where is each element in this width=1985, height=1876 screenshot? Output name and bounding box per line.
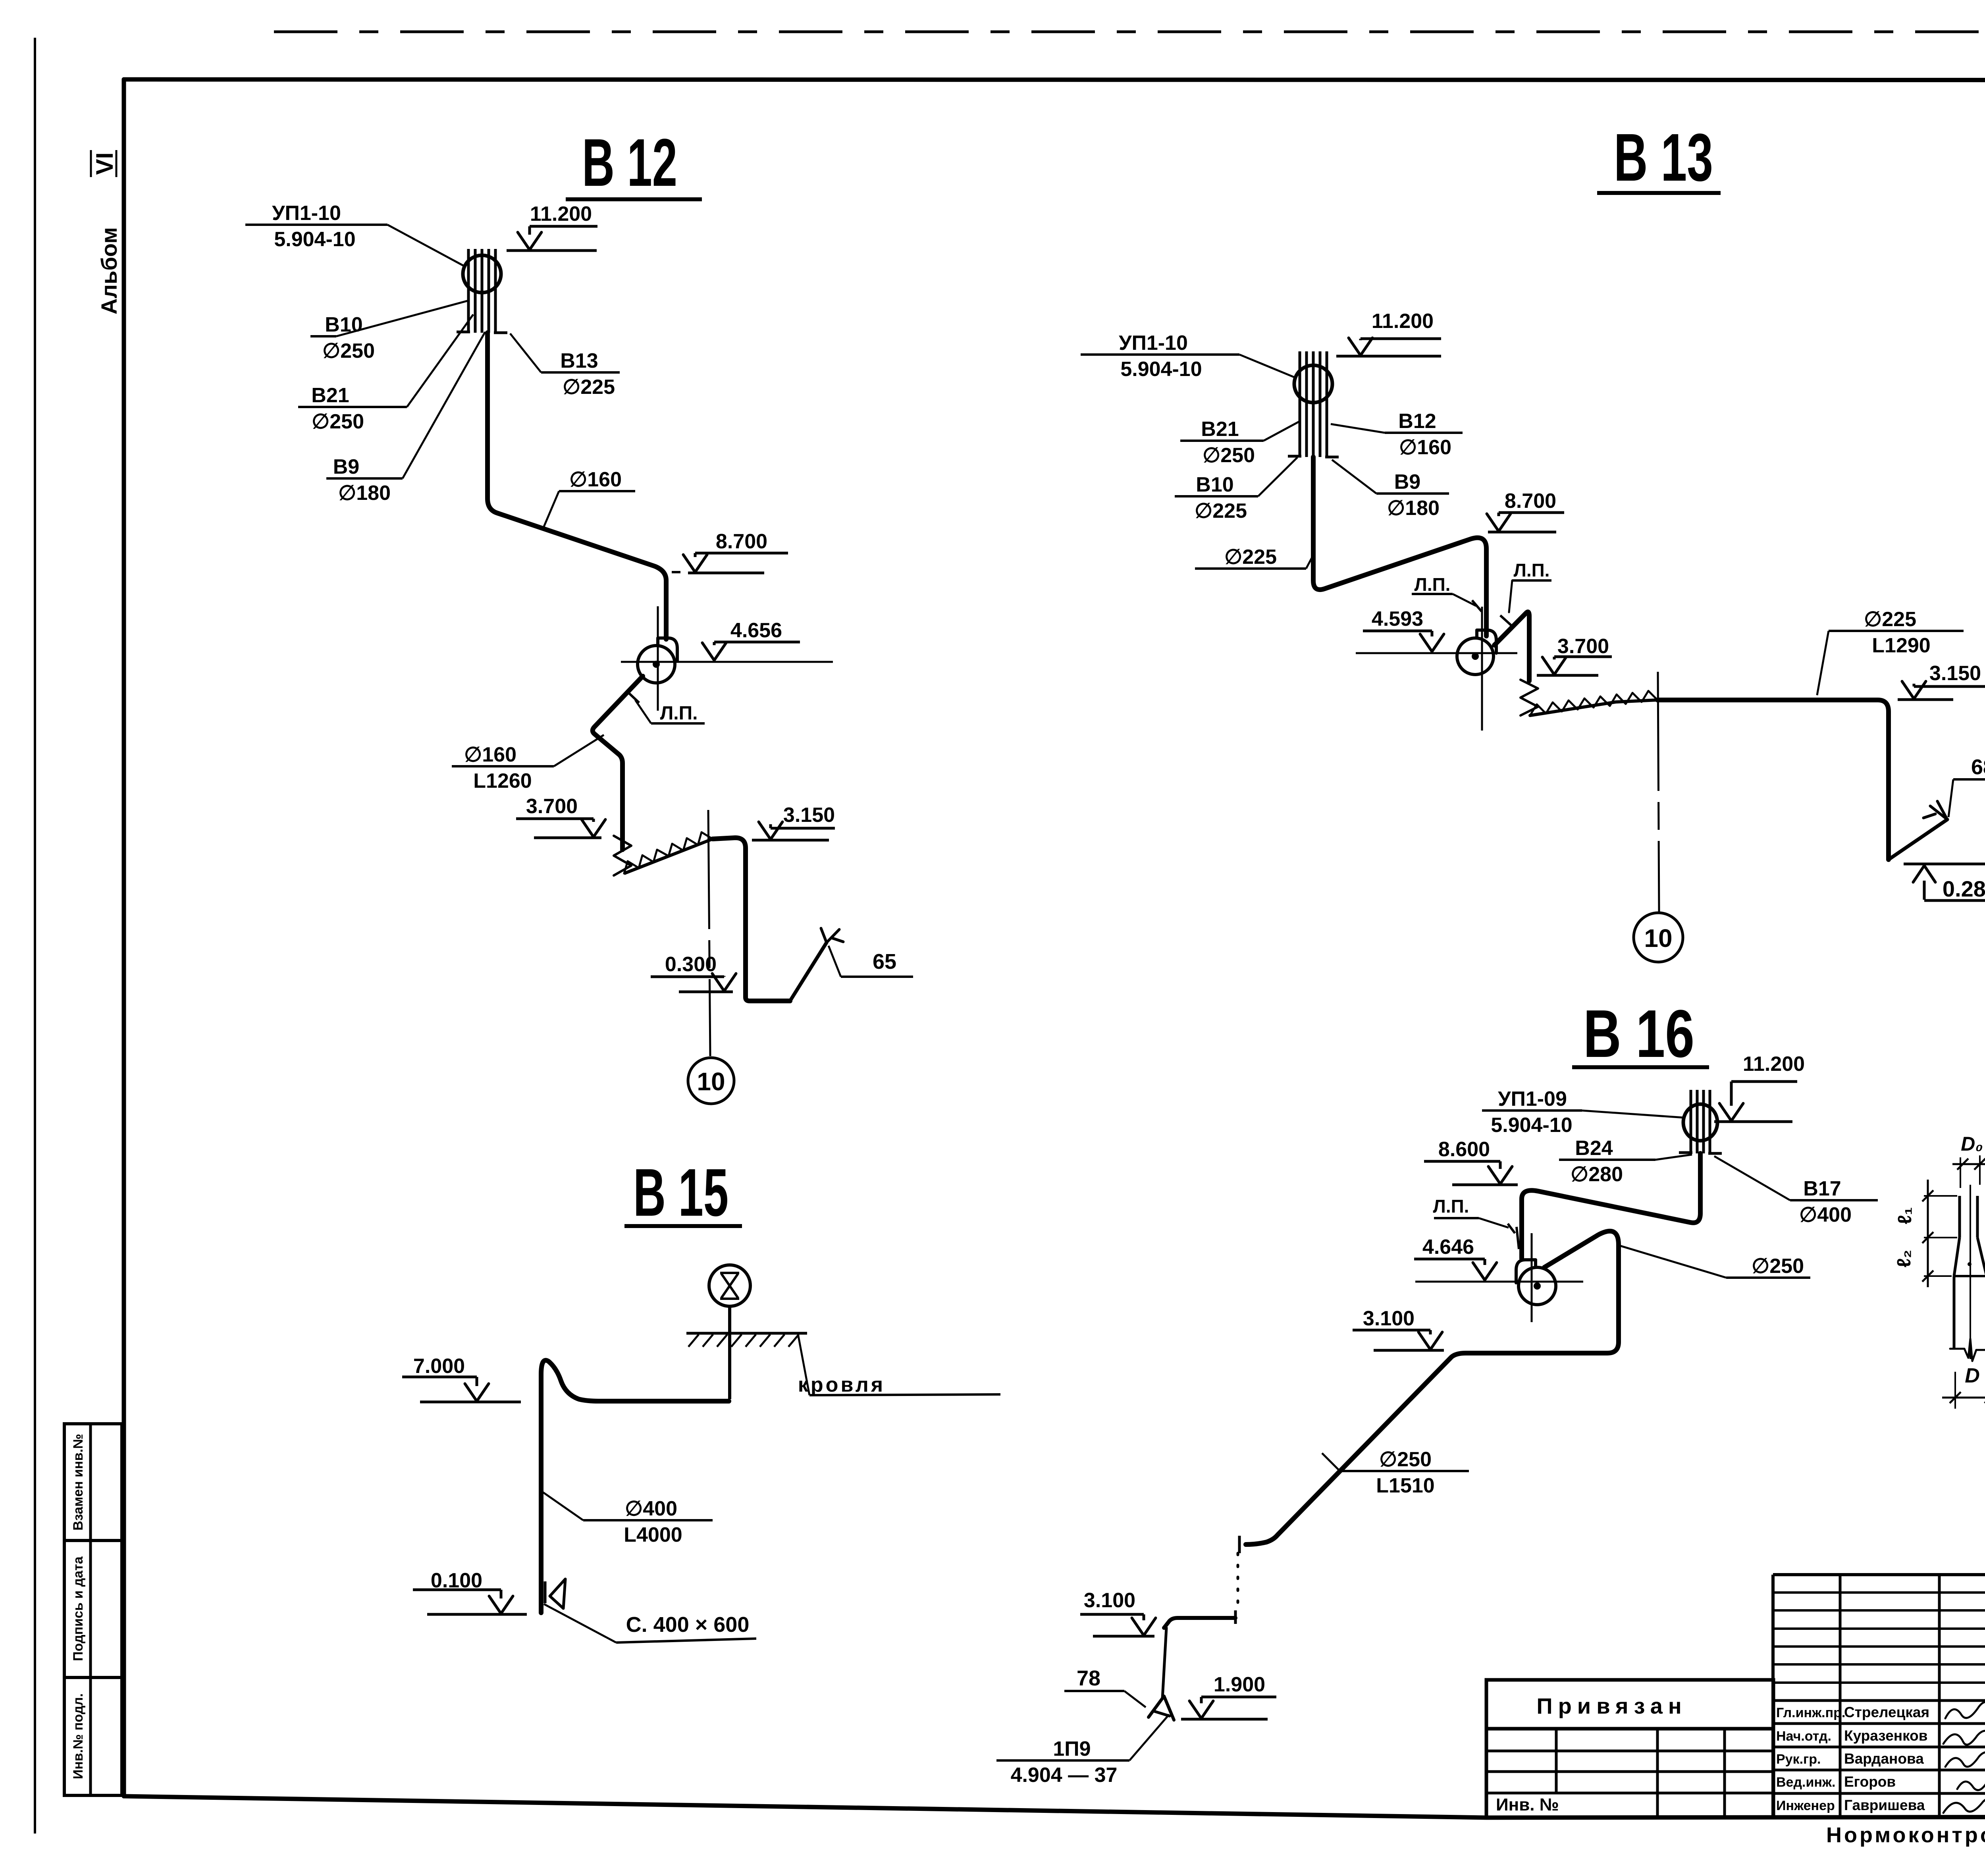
main duct B13 horizontal to outlet — [1657, 700, 1889, 860]
elevation mark 8.700 B12 — [683, 530, 788, 573]
svg-text:∅160: ∅160 — [569, 468, 622, 491]
svg-text:7.000: 7.000 — [413, 1355, 465, 1378]
label В12 ф160 (B13) — [1331, 410, 1463, 459]
axis line to node 10 (B12) — [708, 810, 710, 1056]
svg-text:кровля: кровля — [798, 1373, 885, 1396]
label ф225 (B13) — [1195, 546, 1313, 569]
elevation mark 3.700 B12 — [516, 795, 605, 838]
flare nozzle detail drawing — [1950, 1185, 1985, 1361]
svg-text:11.200: 11.200 — [1372, 310, 1434, 333]
elevation mark 8.600 B16 — [1424, 1138, 1518, 1185]
svg-text:В9: В9 — [1394, 470, 1420, 494]
svg-text:Гавришева: Гавришева — [1844, 1797, 1925, 1813]
dimension l1 l2 — [1894, 1180, 1957, 1287]
label 1П9 4.904-37 — [996, 1714, 1169, 1787]
svg-text:4.646: 4.646 — [1422, 1236, 1474, 1259]
svg-text:В21: В21 — [311, 384, 349, 407]
svg-text:L1260: L1260 — [473, 769, 532, 792]
label В21 ф250 — [298, 314, 473, 433]
flared discharge outlet B13 — [1889, 819, 1947, 860]
duct B12 from roof fan down and to fan inlet — [488, 333, 666, 639]
svg-text:∅160: ∅160 — [464, 743, 516, 766]
elevation mark 0.300 B12 — [651, 953, 736, 992]
svg-text:∅225: ∅225 — [1864, 608, 1916, 631]
svg-text:3.150: 3.150 — [783, 804, 835, 827]
svg-text:3.100: 3.100 — [1084, 1589, 1135, 1612]
flared discharge outlet B12 — [790, 943, 827, 1001]
sheet top cut dash-dot line — [274, 31, 1985, 33]
svg-text:В21: В21 — [1201, 418, 1239, 441]
svg-text:В24: В24 — [1575, 1137, 1613, 1160]
label ф225 L1290 — [1817, 608, 1964, 695]
svg-text:Варданова: Варданова — [1844, 1751, 1924, 1767]
svg-text:5.904-10: 5.904-10 — [274, 228, 355, 251]
elevation mark 7.000 B15 — [402, 1355, 521, 1402]
svg-text:В 12: В 12 — [582, 125, 677, 201]
duct B16 fan outlet: up over, down, left, long diagonal down-left — [1246, 1231, 1619, 1544]
svg-text:Подпись и дата: Подпись и дата — [71, 1556, 86, 1661]
duct B12 to outlet — [713, 838, 790, 1001]
label В9 ф180 — [326, 332, 485, 505]
svg-text:3.700: 3.700 — [1557, 635, 1609, 658]
stem from lamp to duct — [728, 1306, 731, 1399]
svg-text:L4000: L4000 — [624, 1523, 682, 1546]
svg-text:∅250: ∅250 — [1379, 1448, 1432, 1471]
svg-text:В13: В13 — [560, 349, 598, 372]
elevation mark 1.900 B16 — [1181, 1673, 1276, 1719]
svg-text:∅225: ∅225 — [1195, 499, 1247, 523]
label В21 ф250 (B13) — [1180, 418, 1299, 467]
svg-text:0.285: 0.285 — [1943, 876, 1985, 901]
elevation mark 3.100 B16 lower — [1080, 1589, 1156, 1636]
svg-text:Инв. №: Инв. № — [1496, 1795, 1559, 1814]
svg-text:Привязан: Привязан — [1536, 1693, 1687, 1718]
flexible duct B13 with teeth — [1530, 700, 1657, 715]
svg-text:4.593: 4.593 — [1372, 607, 1423, 630]
svg-text:4.904 — 37: 4.904 — 37 — [1011, 1764, 1118, 1787]
elevation mark 0.100 B15 — [413, 1569, 527, 1614]
duct B13 fan outlet up-right then down — [1494, 612, 1529, 681]
label УП1-10 5.904-10 — [245, 202, 464, 266]
svg-text:Инв.№ подл.: Инв.№ подл. — [71, 1693, 86, 1779]
fan B16 (centrifugal, side view) — [1516, 1260, 1556, 1305]
label ф160 L1260 — [452, 735, 604, 792]
roof fan unit УП1-09 of B16 — [1679, 1090, 1722, 1153]
svg-text:В 13: В 13 — [1614, 120, 1713, 195]
svg-text:В 16: В 16 — [1583, 996, 1694, 1072]
svg-text:Нормоконтролер: Нормоконтролер — [1826, 1823, 1985, 1847]
fan B16 centerlines — [1415, 1281, 1583, 1283]
elevation mark 4.646 B16 — [1414, 1236, 1497, 1281]
svg-text:5.904-10: 5.904-10 — [1491, 1114, 1572, 1137]
svg-text:Альбом: Альбом — [96, 227, 121, 314]
svg-text:Л.П.: Л.П. — [1514, 560, 1550, 580]
svg-text:В17: В17 — [1803, 1177, 1841, 1200]
fan B13 (centrifugal, side view) — [1457, 630, 1496, 675]
duct B13 from roof fan down, rising right, down to fan — [1313, 457, 1486, 636]
roof fan unit УП1-10 of B13 — [1288, 351, 1339, 457]
svg-text:L1290: L1290 — [1872, 634, 1930, 657]
flexible duct B12 with teeth — [624, 839, 713, 873]
deflector lamp symbol B15 — [709, 1265, 750, 1306]
stamp box Привязан — [1486, 1680, 1773, 1818]
label В9 ф180 (B13) — [1332, 460, 1449, 520]
svg-text:Егоров: Егоров — [1844, 1774, 1896, 1790]
svg-text:68: 68 — [1971, 755, 1985, 779]
svg-text:78: 78 — [1077, 1666, 1100, 1690]
elevation mark 3.150 B13 — [1898, 662, 1985, 700]
roof hatch line — [686, 1332, 807, 1335]
sheet left edge line — [34, 38, 36, 1834]
svg-text:ℓ₂: ℓ₂ — [1894, 1250, 1915, 1268]
svg-text:VI: VI — [91, 152, 118, 175]
svg-text:В 15: В 15 — [633, 1155, 728, 1230]
sidebar stamp: Подпись и дата — [64, 1541, 122, 1677]
sidebar stamp: Инв.N подл. — [64, 1677, 122, 1795]
sidebar stamp: Взамен инв.N — [64, 1424, 122, 1541]
svg-text:∅225: ∅225 — [563, 376, 615, 399]
svg-text:8.700: 8.700 — [1505, 490, 1556, 513]
svg-text:∅250: ∅250 — [1752, 1255, 1804, 1278]
svg-text:65: 65 — [873, 950, 896, 974]
fan B12 centerlines — [621, 661, 833, 663]
lower duct B16 — [1234, 1610, 1237, 1624]
svg-text:Стрелецкая: Стрелецкая — [1844, 1704, 1929, 1720]
label ф250 (B16 outlet) — [1621, 1246, 1810, 1278]
svg-text:∅160: ∅160 — [1399, 436, 1451, 459]
svg-text:∅400: ∅400 — [625, 1497, 677, 1520]
svg-text:В9: В9 — [333, 455, 359, 478]
svg-text:3.700: 3.700 — [526, 795, 578, 818]
hatch mark Л.П. on B12 outlet duct — [626, 691, 639, 703]
svg-text:В10: В10 — [325, 313, 362, 336]
label УП1-10 5.904-10 (B13) — [1081, 332, 1294, 381]
svg-text:8.600: 8.600 — [1438, 1138, 1490, 1161]
label ф250 L1510 — [1322, 1448, 1469, 1497]
svg-text:Л.П.: Л.П. — [1415, 574, 1451, 595]
duct B15 riser with hook and horizontal run — [541, 1360, 729, 1613]
svg-text:УП1-10: УП1-10 — [272, 202, 341, 225]
svg-text:УП1-10: УП1-10 — [1119, 332, 1188, 355]
svg-text:D: D — [1965, 1364, 1980, 1387]
duct end tick B16 — [1238, 1536, 1241, 1553]
axis node circle 10 (B12) — [688, 1058, 734, 1104]
label В17 ф400 — [1714, 1156, 1878, 1226]
svg-text:Гл.инж.пр.: Гл.инж.пр. — [1776, 1705, 1845, 1720]
dimension Do — [1952, 1133, 1985, 1188]
svg-text:Взамен инв.№: Взамен инв.№ — [71, 1434, 86, 1531]
svg-text:Л.П.: Л.П. — [660, 703, 698, 724]
label В13 ф225 — [510, 334, 620, 399]
svg-text:10: 10 — [1644, 924, 1672, 952]
elevation mark 11.200 B12 — [507, 202, 597, 251]
svg-text:8.700: 8.700 — [716, 530, 767, 553]
elevation mark 4.593 B13 — [1363, 607, 1444, 652]
axis node circle 10 (B13) — [1634, 913, 1683, 962]
svg-text:В10: В10 — [1196, 473, 1233, 496]
label В10 ф225 (B13) — [1175, 457, 1297, 523]
flared discharge outlet B16 — [1149, 1696, 1174, 1720]
svg-text:∅225: ∅225 — [1224, 546, 1277, 569]
dimension D — [1942, 1364, 1985, 1409]
label ф160 — [543, 468, 635, 528]
elevation mark 0.285 (arrow up) — [1904, 864, 1985, 901]
flexible connection B12 (spring) — [614, 836, 631, 875]
svg-text:∅180: ∅180 — [1387, 497, 1440, 520]
air intake symbol B15 — [544, 1581, 547, 1603]
svg-text:С. 400 × 600: С. 400 × 600 — [626, 1613, 750, 1637]
elevation mark 11.200 B16 — [1714, 1053, 1805, 1122]
svg-text:Рук.гр.: Рук.гр. — [1776, 1752, 1821, 1767]
fan B12 (centrifugal, side view) — [638, 638, 677, 683]
elevation mark 11.200 B13 — [1336, 310, 1441, 356]
elevation mark 3.700 B13 — [1537, 635, 1612, 675]
duct B12 fan outlet down-left then down — [593, 676, 643, 850]
axis line to node 10 (B13) — [1658, 672, 1659, 912]
elevation mark 8.700 B13 — [1487, 490, 1564, 532]
svg-text:В12: В12 — [1398, 410, 1436, 433]
dotted riser B16 — [1237, 1553, 1239, 1613]
svg-text:∅250: ∅250 — [312, 410, 364, 433]
svg-text:D₀: D₀ — [1961, 1133, 1983, 1155]
svg-text:ℓ₁: ℓ₁ — [1894, 1207, 1916, 1224]
label ф400 L4000 — [543, 1492, 713, 1546]
svg-text:∅400: ∅400 — [1799, 1203, 1852, 1226]
svg-text:Куразенков: Куразенков — [1844, 1728, 1928, 1744]
duct B16 from roof fan down, to the left, down into fan — [1522, 1153, 1700, 1259]
label В10 ф250 — [310, 301, 468, 362]
svg-text:1П9: 1П9 — [1053, 1737, 1091, 1760]
drawing frame border — [124, 79, 1985, 80]
elevation mark 4.656 B12 — [702, 619, 800, 661]
svg-text:11.200: 11.200 — [530, 202, 592, 226]
svg-text:Вед.инж.: Вед.инж. — [1776, 1775, 1835, 1790]
svg-text:∅280: ∅280 — [1571, 1163, 1623, 1186]
svg-text:УП1-09: УП1-09 — [1498, 1087, 1567, 1111]
svg-text:∅250: ∅250 — [1203, 444, 1255, 467]
svg-text:11.200: 11.200 — [1743, 1053, 1805, 1076]
fan B13 centerlines — [1356, 652, 1517, 654]
svg-text:3.150: 3.150 — [1929, 662, 1981, 685]
svg-text:3.100: 3.100 — [1363, 1307, 1415, 1330]
duct level tick at 8.700 — [672, 571, 680, 573]
svg-text:10: 10 — [697, 1067, 725, 1096]
svg-text:Нач.отд.: Нач.отд. — [1776, 1729, 1831, 1744]
signature table — [1773, 1575, 1985, 1817]
svg-text:∅180: ∅180 — [338, 482, 391, 505]
svg-text:5.904-10: 5.904-10 — [1120, 358, 1202, 381]
svg-text:Л.П.: Л.П. — [1433, 1196, 1469, 1217]
label В24 ф280 — [1559, 1137, 1692, 1186]
svg-text:1.900: 1.900 — [1214, 1673, 1265, 1696]
svg-text:Инженер: Инженер — [1776, 1798, 1835, 1813]
label УП1-09 5.904-10 — [1482, 1087, 1684, 1137]
flexible connection B13 (spring) — [1521, 680, 1538, 715]
elevation mark 3.150 B12 — [752, 804, 835, 840]
svg-text:4.656: 4.656 — [730, 619, 782, 642]
svg-text:L1510: L1510 — [1376, 1474, 1434, 1497]
svg-text:∅250: ∅250 — [322, 339, 375, 362]
roof fan unit УП1-10 of B12 — [457, 249, 507, 333]
elevation mark 3.100 B16 upper — [1353, 1307, 1444, 1350]
